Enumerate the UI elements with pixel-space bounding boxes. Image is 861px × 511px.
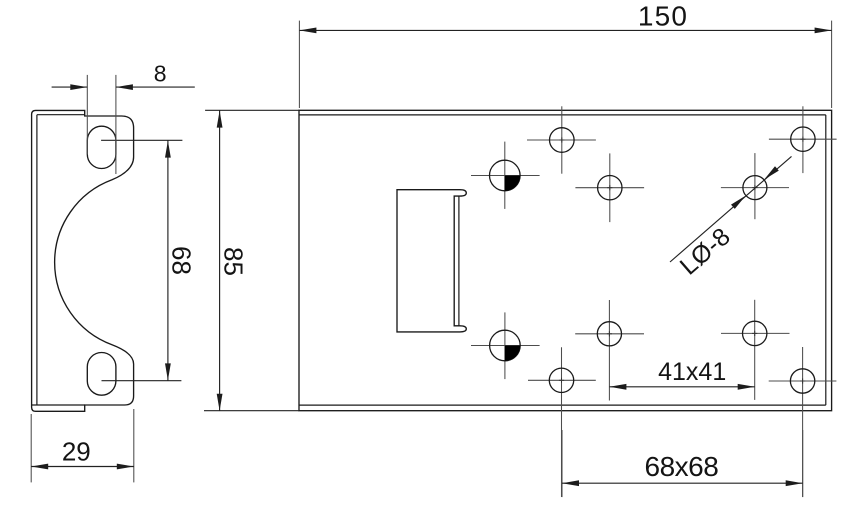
plate inner offset bottom edge — [299, 404, 826, 406]
dimension 8: dim lines and arrows — [52, 86, 88, 88]
top plan view: plate outer rectangle — [299, 110, 832, 410]
plate inner offset right edge — [825, 115, 827, 405]
diameter callout leader line — [670, 156, 792, 262]
left side view: bracket outer profile — [32, 110, 134, 411]
dimension 41x41: dim line and arrows — [609, 386, 754, 388]
dimension 150: extension lines — [298, 21, 300, 108]
hole H bottom-right of square 68 — [769, 347, 837, 497]
dimension 68x68: extension lines are hole G/H centerlines extended — [561, 430, 563, 497]
tab lip inner line — [458, 196, 460, 326]
dimension 85: dim line and arrows — [219, 110, 221, 411]
hole G bottom-left of square 68 — [528, 347, 596, 497]
hole A top-left of square 68 — [527, 106, 596, 173]
svg-text:68x68: 68x68 — [645, 451, 719, 482]
plan view of bent tab: rectangle with lip — [397, 190, 466, 332]
dimension 68 (left view): dim line and arrows — [167, 140, 169, 380]
svg-text:29: 29 — [62, 437, 91, 467]
left view inner bend line vertical — [36, 115, 38, 405]
hole D top-right of square 41 (dimensioned) — [721, 153, 789, 219]
hole F bottom-right of square 41 — [721, 300, 790, 400]
dimension 8: extension lines — [86, 75, 88, 155]
hole E bottom-left of square 41 — [575, 300, 644, 401]
top oval slot — [87, 126, 116, 168]
top slot centerline — [101, 139, 182, 141]
dimension 29: dim line and arrows — [31, 466, 134, 468]
svg-text:85: 85 — [219, 247, 249, 276]
bottom oval slot — [87, 353, 116, 396]
bottom slot centerline — [102, 380, 182, 382]
hole C top-right of square 68 — [769, 106, 837, 173]
dimension 68x68: dim line and arrows — [562, 482, 803, 484]
svg-text:8: 8 — [154, 61, 167, 87]
hole B top-left of square 41 — [575, 153, 644, 222]
left view tab bottom hidden bend line — [32, 404, 85, 406]
datum target lower — [471, 312, 540, 379]
svg-text:41x41: 41x41 — [658, 358, 726, 386]
datum target upper — [471, 142, 540, 209]
plate inner offset top edge — [299, 114, 826, 116]
left view inner bend line top — [37, 114, 85, 116]
svg-text:68: 68 — [167, 246, 197, 275]
svg-text:150: 150 — [638, 0, 688, 31]
dimension 85: extension lines — [205, 109, 299, 111]
dimension 29: extension lines — [30, 414, 32, 482]
dimension 150: dim line and arrows — [299, 29, 831, 31]
